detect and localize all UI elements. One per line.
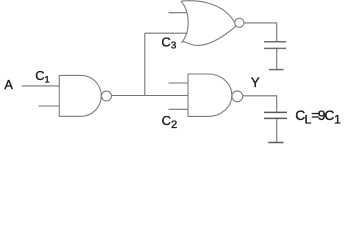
svg-text:CL=9C1: CL=9C1 — [295, 107, 341, 126]
svg-text:A: A — [4, 77, 13, 92]
svg-text:C3: C3 — [161, 34, 176, 51]
svg-text:Y: Y — [251, 75, 260, 90]
svg-text:C2: C2 — [162, 113, 178, 131]
svg-text:C1: C1 — [35, 68, 49, 84]
